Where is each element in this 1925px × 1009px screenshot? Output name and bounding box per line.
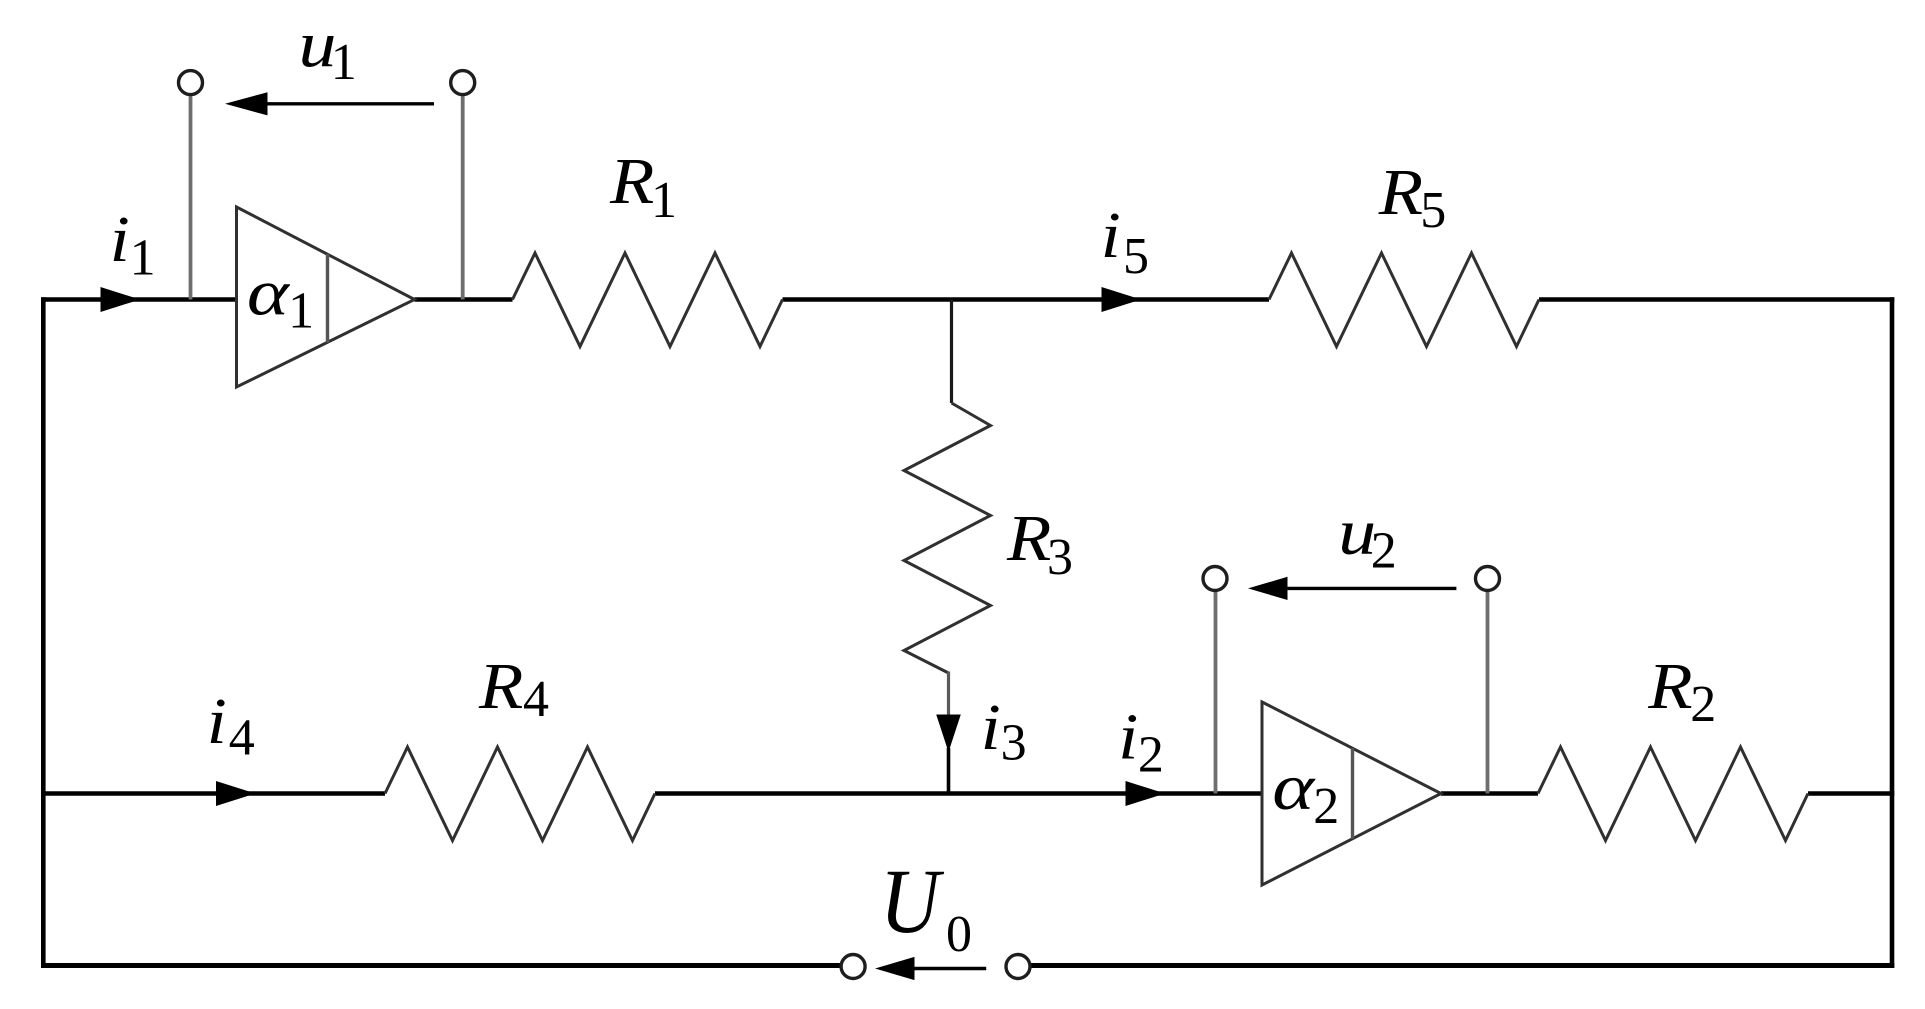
op-amp U2 inner bar <box>1351 748 1354 838</box>
label i5 <box>1101 199 1121 272</box>
svg-text:i: i <box>1101 199 1121 272</box>
wire top between R1 and R5 <box>783 297 1270 302</box>
resistor R2 <box>1538 747 1808 841</box>
svg-text:2: 2 <box>1371 522 1397 579</box>
label alpha2 <box>1272 750 1316 823</box>
wire middle apex a2 to R2 <box>1441 791 1538 796</box>
resistor R5 <box>1269 253 1539 347</box>
arrow i1 <box>101 287 141 312</box>
arrow i5 <box>1102 287 1142 312</box>
svg-text:R: R <box>1647 650 1692 723</box>
wire top left segment <box>41 297 237 302</box>
svg-text:4: 4 <box>523 671 549 728</box>
op-amp U1 inner bar <box>326 254 329 343</box>
label u1 <box>299 8 337 80</box>
wire right vertical <box>1890 297 1895 968</box>
svg-text:U: U <box>880 850 944 952</box>
terminal T5 circle (U0 left) <box>841 955 865 979</box>
svg-text:i: i <box>110 203 130 276</box>
svg-text:R: R <box>1006 502 1051 575</box>
label i2 <box>1118 701 1138 774</box>
arrow u1 head <box>225 92 268 115</box>
label R1 <box>609 145 654 218</box>
terminal stem T2 <box>461 95 465 300</box>
resistor R3 <box>904 403 991 673</box>
terminal T2 circle <box>451 71 475 95</box>
wire bottom left of U0 terminal <box>41 963 841 968</box>
label u2 <box>1338 496 1376 568</box>
wire middle between R4 and a2 <box>655 791 1262 796</box>
wire R3 bottom stub <box>947 672 950 718</box>
svg-text:R: R <box>609 145 654 218</box>
label R4 <box>478 650 523 723</box>
op-amp U1 (alpha1) triangle <box>237 207 415 387</box>
svg-text:0: 0 <box>946 906 972 963</box>
terminal stem T4 <box>1486 590 1490 794</box>
arrow u2 head <box>1248 577 1288 600</box>
svg-text:1: 1 <box>130 230 156 287</box>
label i4 <box>207 685 227 758</box>
terminal T1 circle <box>179 71 203 95</box>
svg-text:2: 2 <box>1313 778 1339 835</box>
wire top middle segment (apex a1 to R1) <box>415 297 513 302</box>
terminal T3 circle <box>1203 567 1227 591</box>
label i3 <box>981 691 1001 764</box>
svg-text:5: 5 <box>1420 182 1446 239</box>
terminal stem T1 <box>189 95 193 300</box>
label U0 <box>880 850 944 952</box>
svg-text:2: 2 <box>1138 727 1164 784</box>
arrow i3 head <box>936 715 961 753</box>
svg-text:R: R <box>478 650 523 723</box>
arrow i4 <box>216 781 256 806</box>
svg-text:i: i <box>981 691 1001 764</box>
label alpha1 <box>247 256 291 329</box>
resistor R1 <box>513 253 783 347</box>
svg-text:1: 1 <box>651 172 677 229</box>
svg-text:α: α <box>1272 750 1316 823</box>
wire middle right of R2 <box>1808 791 1894 796</box>
label R5 <box>1378 156 1423 229</box>
svg-text:3: 3 <box>1001 715 1027 772</box>
svg-text:i: i <box>1118 701 1138 774</box>
arrow U0 head <box>875 957 915 980</box>
svg-text:1: 1 <box>331 34 357 91</box>
node A (junction of R3 with top wire) <box>950 300 953 404</box>
wire i3 to node B <box>947 748 951 795</box>
svg-text:2: 2 <box>1690 676 1716 733</box>
wire top right of R5 <box>1539 297 1894 302</box>
terminal stem T3 <box>1214 590 1218 794</box>
svg-text:5: 5 <box>1123 228 1149 285</box>
wire middle left segment <box>41 791 385 796</box>
arrow U0 line <box>912 967 986 970</box>
terminal T6 circle (U0 right) <box>1006 955 1030 979</box>
svg-text:3: 3 <box>1047 529 1073 586</box>
svg-text:4: 4 <box>229 710 255 767</box>
svg-text:α: α <box>247 256 291 329</box>
wire bottom right of U0 terminal <box>1030 963 1894 968</box>
resistor R4 <box>385 747 655 841</box>
label R2 <box>1647 650 1692 723</box>
op-amp U2 (alpha2) triangle <box>1262 702 1441 885</box>
arrow u1 line <box>264 102 434 105</box>
terminal T4 circle <box>1476 567 1500 591</box>
arrow i2 <box>1126 781 1166 806</box>
label i1 <box>110 203 130 276</box>
svg-text:1: 1 <box>288 283 314 340</box>
wire left vertical <box>41 297 46 968</box>
svg-text:i: i <box>207 685 227 758</box>
svg-text:R: R <box>1378 156 1423 229</box>
arrow u2 line <box>1284 587 1456 590</box>
label R3 <box>1006 502 1051 575</box>
